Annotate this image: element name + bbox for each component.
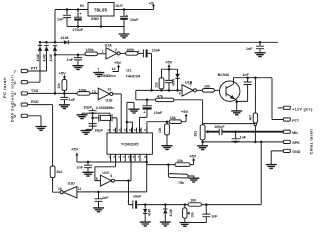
svg-text:3: 3: [179, 92, 181, 96]
svg-text:4148: 4148: [61, 36, 69, 40]
svg-text:16: 16: [107, 128, 111, 132]
svg-text:1nF: 1nF: [57, 17, 64, 21]
svg-text:7: 7: [97, 68, 99, 72]
svg-text:+5V: +5V: [181, 109, 189, 114]
svg-text:12: 12: [107, 87, 111, 91]
svg-text:4148: 4148: [169, 209, 173, 216]
svg-text:10pF: 10pF: [94, 128, 103, 132]
svg-text:4148: 4148: [49, 54, 53, 61]
svg-text:10pF: 10pF: [83, 106, 92, 110]
svg-text:14: 14: [112, 67, 116, 71]
svg-text:13: 13: [92, 90, 96, 94]
svg-text:TXD: TXD: [31, 89, 39, 93]
svg-text:1nF: 1nF: [69, 98, 76, 102]
svg-text:22k: 22k: [155, 82, 159, 88]
svg-text:100k: 100k: [86, 48, 94, 52]
svg-text:1nF: 1nF: [76, 166, 83, 170]
svg-text:10k: 10k: [158, 127, 162, 133]
svg-text:1nF: 1nF: [246, 47, 253, 51]
svg-text:RXD: RXD: [31, 100, 39, 104]
svg-text:BC546: BC546: [218, 73, 229, 77]
svg-text:11: 11: [134, 128, 137, 132]
svg-text:U1C: U1C: [102, 171, 110, 175]
svg-text:10: 10: [58, 187, 62, 191]
svg-text:U1D: U1D: [68, 181, 76, 185]
svg-text:22k: 22k: [57, 83, 61, 89]
svg-text:4148: 4148: [172, 79, 176, 86]
svg-text:47k: 47k: [157, 94, 163, 98]
svg-text:75k: 75k: [178, 181, 184, 185]
svg-text:1nF: 1nF: [102, 196, 109, 200]
svg-text:10uF: 10uF: [130, 18, 139, 22]
svg-text:10uF: 10uF: [133, 194, 142, 198]
svg-text:100nF: 100nF: [214, 125, 225, 129]
svg-text:Vcc: Vcc: [109, 73, 117, 78]
svg-text:+5V: +5V: [59, 71, 67, 76]
svg-text:11: 11: [78, 187, 82, 191]
svg-text:4.4336MHz: 4.4336MHz: [96, 106, 115, 110]
svg-text:10k: 10k: [191, 212, 195, 218]
svg-text:5: 5: [96, 177, 98, 181]
svg-text:TCM3105: TCM3105: [121, 141, 139, 146]
svg-text:10k: 10k: [204, 85, 210, 89]
svg-text:4: 4: [190, 82, 192, 86]
svg-text:13: 13: [124, 128, 128, 132]
svg-text:10: 10: [138, 128, 142, 132]
svg-text:1nF: 1nF: [211, 214, 218, 218]
svg-text:4148: 4148: [42, 54, 46, 61]
svg-text:100k: 100k: [126, 48, 134, 52]
svg-text:270uF: 270uF: [73, 28, 84, 32]
svg-text:1nF: 1nF: [67, 58, 74, 62]
svg-text:2k2: 2k2: [56, 170, 62, 174]
svg-text:74HC04: 74HC04: [125, 73, 140, 78]
svg-text:PC tarafı: PC tarafı: [2, 77, 7, 98]
svg-text:2k2: 2k2: [193, 131, 197, 137]
svg-text:Mic: Mic: [292, 131, 298, 135]
svg-text:GND: GND: [292, 150, 300, 154]
svg-text:4k7: 4k7: [249, 115, 253, 121]
svg-text:1: 1: [102, 50, 104, 54]
svg-text:100: 100: [190, 199, 196, 203]
svg-text:U1A: U1A: [105, 44, 113, 48]
svg-text:U1E: U1E: [106, 99, 114, 103]
svg-text:10uF: 10uF: [152, 49, 161, 53]
svg-text:100k: 100k: [79, 88, 87, 92]
svg-text:4148: 4148: [148, 209, 152, 216]
svg-text:+5V: +5V: [165, 60, 173, 65]
svg-text:22k: 22k: [177, 159, 183, 163]
svg-text:15: 15: [113, 128, 117, 132]
svg-text:6: 6: [110, 174, 112, 178]
svg-text:Cihaz tarafı: Cihaz tarafı: [309, 129, 314, 155]
svg-text:+5V: +5V: [114, 60, 122, 65]
svg-text:U1: U1: [126, 68, 132, 73]
svg-text:4148: 4148: [36, 54, 40, 61]
svg-text:14: 14: [118, 128, 122, 132]
svg-text:PTT: PTT: [292, 119, 300, 123]
svg-text:12: 12: [129, 128, 133, 132]
svg-text:GND: GND: [91, 17, 99, 21]
svg-text:OUT: OUT: [116, 4, 124, 8]
svg-text:10uF: 10uF: [154, 111, 163, 115]
svg-text:78L05: 78L05: [94, 8, 107, 13]
svg-text:15k: 15k: [170, 116, 176, 120]
svg-text:DB9 bağlantı uçları: DB9 bağlantı uçları: [10, 74, 14, 122]
svg-text:+5: +5: [149, 1, 154, 6]
svg-text:2: 2: [115, 48, 117, 52]
svg-text:+5V: +5V: [189, 153, 197, 158]
svg-text:PTT: PTT: [31, 67, 39, 71]
svg-text:1nF: 1nF: [240, 136, 247, 140]
svg-text:IN: IN: [80, 4, 84, 8]
svg-text:+12V giriş: +12V giriş: [292, 108, 313, 112]
svg-text:+5V: +5V: [71, 147, 79, 152]
svg-text:1nF: 1nF: [242, 73, 249, 77]
svg-text:SPK: SPK: [292, 141, 300, 145]
